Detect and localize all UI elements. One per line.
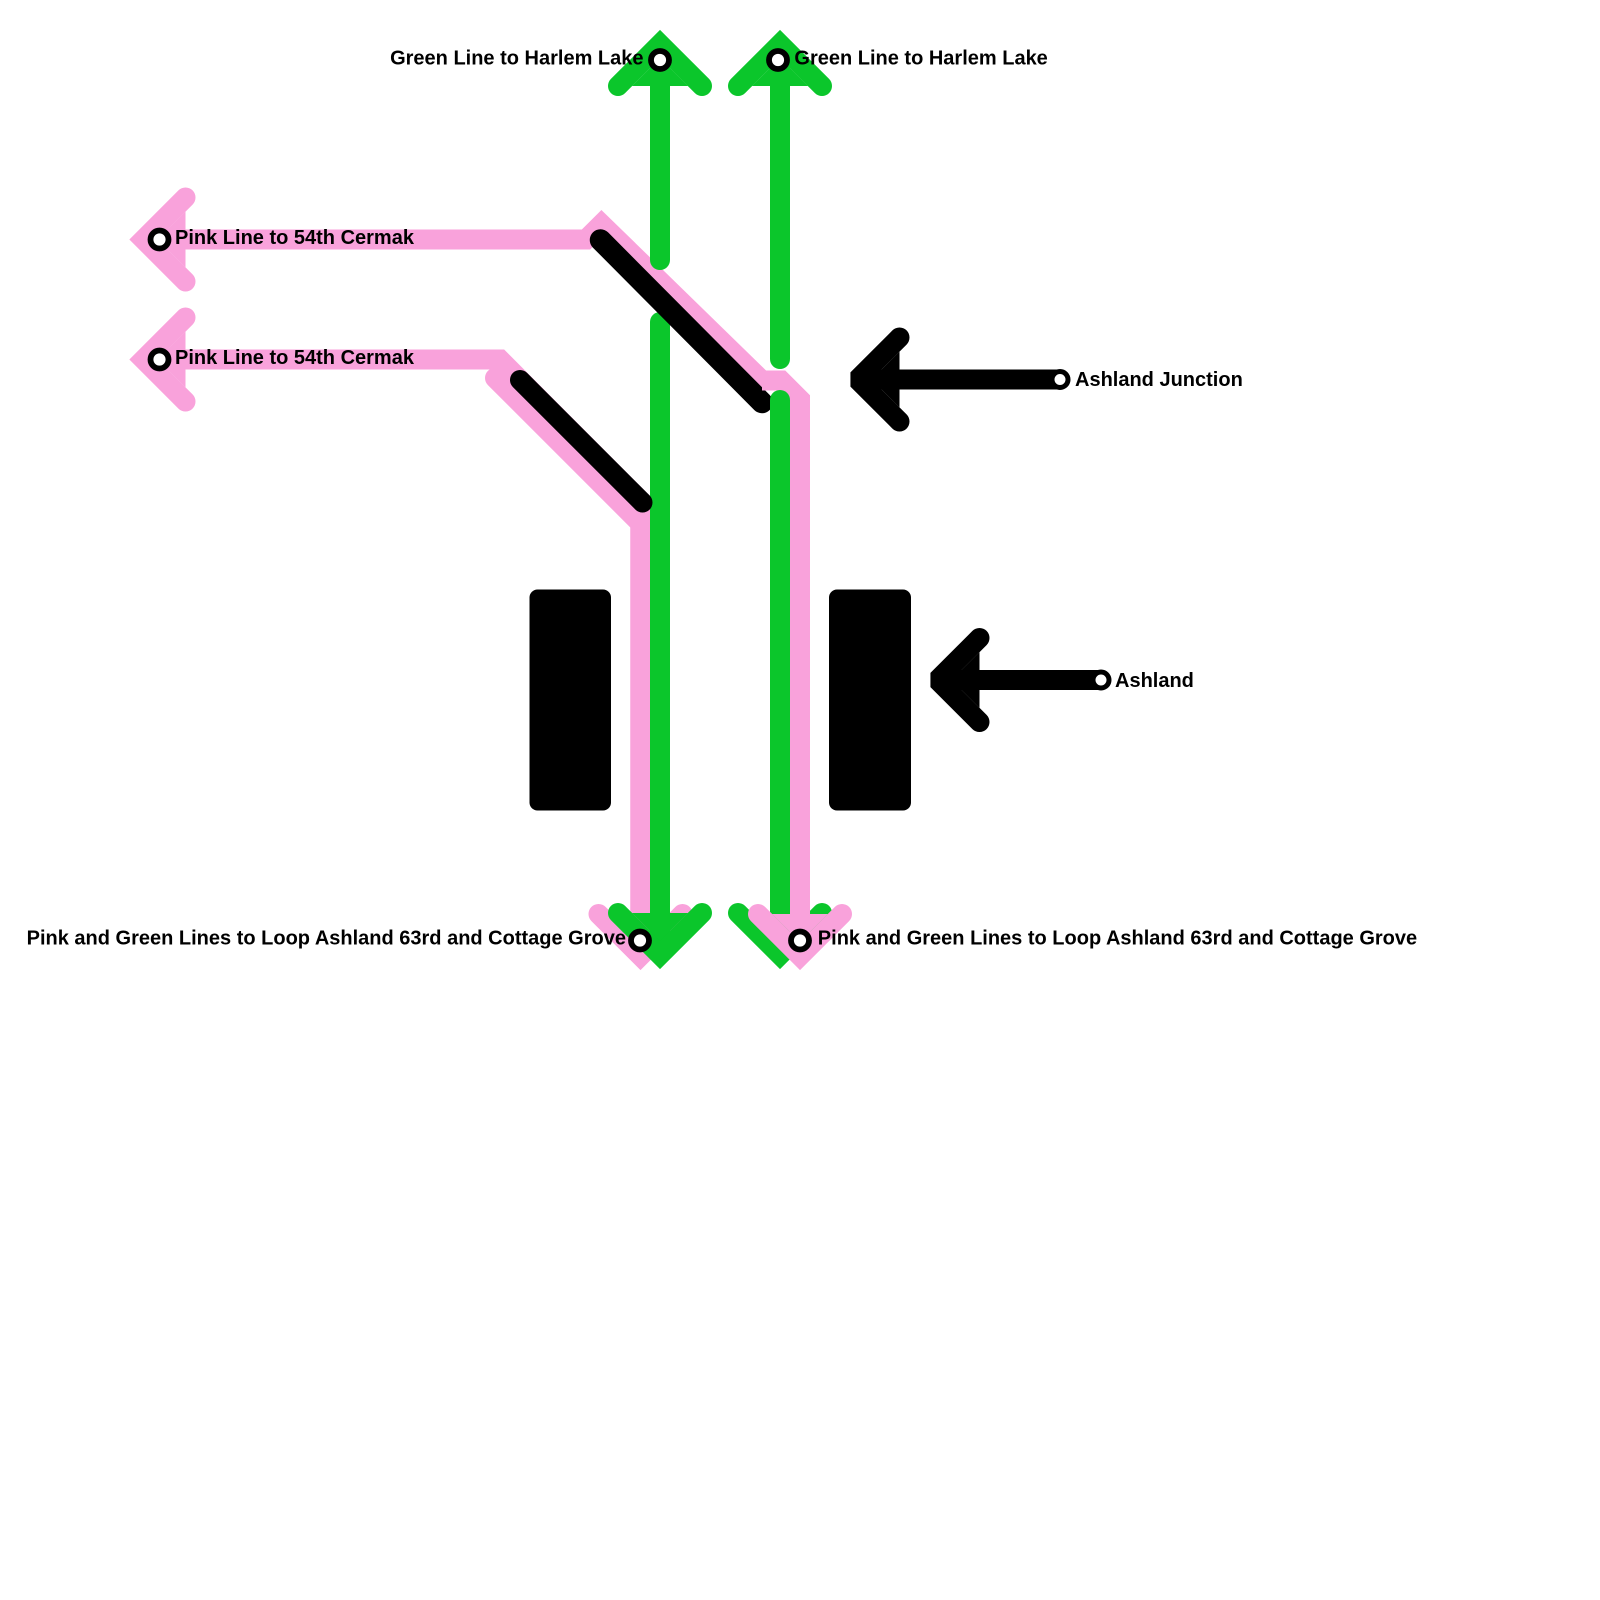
station marker: bottom-left: [631, 932, 649, 950]
svg-text:Ashland: Ashland: [1115, 670, 1194, 692]
crossover track D2 (black diagonal, lower): [520, 380, 643, 503]
svg-text:Ashland Junction: Ashland Junction: [1075, 369, 1243, 391]
node ring: Ashland: [1093, 672, 1109, 688]
station marker: Green Line top-left: [651, 51, 669, 69]
arrow fill green line 2 top: [752, 58, 808, 86]
wire pink route 2 main polyline: [146, 360, 640, 949]
svg-text:Pink and Green Lines to Loop A: Pink and Green Lines to Loop Ashland 63r…: [818, 928, 1417, 950]
pink route 2: Pink Line to 54th Cermak (lower branch): [144, 318, 683, 957]
arrow fill green line 2 bottom: [752, 913, 808, 941]
svg-text:Pink and Green Lines to Loop A: Pink and Green Lines to Loop Ashland 63r…: [27, 928, 626, 950]
arrow pink route 2 left arrowhead: [144, 318, 186, 402]
arrow pink route 1 bottom arrowhead: [758, 914, 842, 956]
arrow fill Ashland: [952, 652, 980, 708]
wire green line 2 lower shaft: [770, 400, 790, 948]
wire pink route 1 main polyline: [146, 224, 800, 948]
arrow pink route 2 bottom arrowhead: [599, 914, 683, 956]
arrow fill pink route 1 left: [158, 212, 186, 268]
arrow fill pink route 2 left: [158, 332, 186, 388]
station marker: bottom-right: [791, 932, 809, 950]
black pointer arrow: Ashland Junction: [858, 338, 1061, 422]
wire pink route 1 jog redrawn over crossover: [762, 381, 800, 861]
arrow green line 2 top arrowhead: [738, 44, 822, 86]
pink route 1: Pink Line to 54th Cermak (upper branch): [144, 198, 801, 949]
svg-text:Pink Line to 54th Cermak: Pink Line to 54th Cermak: [175, 347, 415, 369]
arrow green line 1 bottom arrowhead: [618, 913, 702, 955]
platform east (black rounded rectangle): [829, 590, 911, 811]
svg-text:Pink Line to 54th Cermak: Pink Line to 54th Cermak: [175, 227, 415, 249]
svg-text:Green Line to Harlem Lake: Green Line to Harlem Lake: [794, 48, 1047, 70]
arrow green line 1 top arrowhead: [618, 44, 702, 86]
arrow fill pink route 1 bottom: [772, 914, 828, 942]
pink route 1 lower part redrawn over green line 2: [758, 840, 842, 956]
wire green line 1 lower shaft: [650, 322, 670, 948]
platform west (black rounded rectangle): [530, 590, 612, 811]
svg-text:Green Line to Harlem Lake: Green Line to Harlem Lake: [390, 48, 643, 70]
wire green line 1 upper shaft: [650, 50, 670, 260]
wire pink route 1 vertical lower segment: [790, 840, 810, 948]
black pointer arrow: Ashland: [938, 638, 1102, 722]
wire pink route 2 offset diagonal track: [495, 378, 640, 523]
station marker: Pink Line upper-left: [151, 231, 169, 249]
green line 2 (east track): [738, 44, 822, 955]
node ring: Ashland Junction: [1052, 372, 1068, 388]
arrow fill Ashland Junction: [872, 352, 900, 408]
arrow green line 2 bottom arrowhead: [738, 913, 822, 955]
green line 1 (west track): [618, 44, 702, 955]
station marker: Pink Line lower-left: [151, 351, 169, 369]
arrow fill pink route 2 bottom: [613, 914, 669, 942]
crossover track D1 (black diagonal, upper): [601, 240, 763, 403]
arrow fill green line 1 bottom: [632, 913, 688, 941]
station marker: Green Line top-right: [769, 51, 787, 69]
arrow pink route 1 left arrowhead: [144, 198, 186, 282]
arrow fill green line 1 top: [632, 58, 688, 86]
wire green line 2 upper shaft: [770, 50, 790, 359]
